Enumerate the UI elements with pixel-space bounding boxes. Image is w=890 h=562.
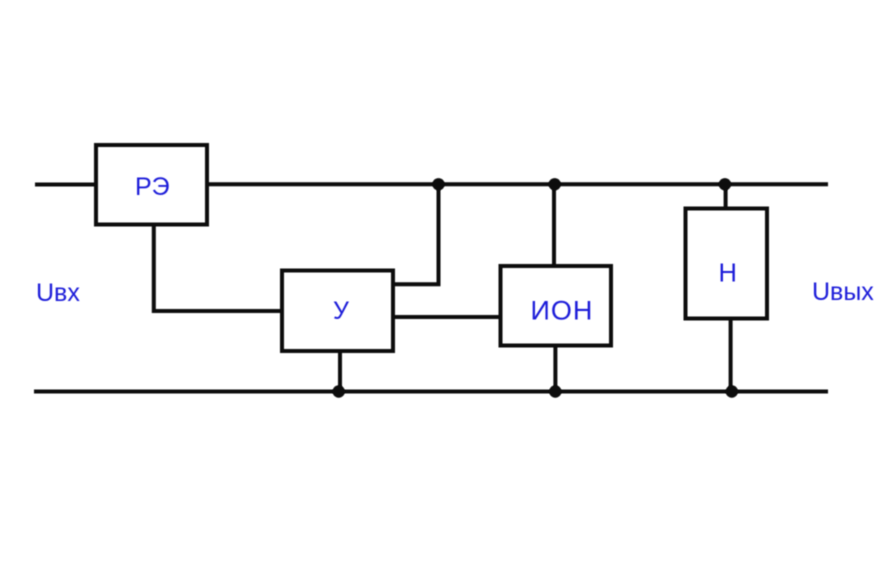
- svg-text:Uвх: Uвх: [36, 279, 80, 307]
- svg-text:У: У: [333, 297, 349, 325]
- ground junction dot at U: [333, 385, 345, 397]
- wire node B down to ION top: [552, 185, 556, 266]
- wire input (top-left to RE): [35, 183, 96, 187]
- svg-text:РЭ: РЭ: [135, 173, 170, 201]
- svg-text:ИОН: ИОН: [531, 296, 594, 326]
- block N (load): [686, 209, 768, 319]
- wire bottom rail: [34, 390, 828, 394]
- wire node C down to N top: [724, 185, 728, 209]
- wire node A down to U output: [394, 185, 439, 285]
- wire N bottom to ground rail: [729, 319, 733, 392]
- node A junction dot: [432, 178, 444, 190]
- svg-text:Uвых: Uвых: [812, 278, 874, 306]
- node B junction dot: [549, 178, 561, 190]
- block ION (voltage reference): [501, 266, 612, 346]
- wire top rail (RE output to right end): [207, 182, 828, 186]
- ground junction dot at N: [726, 385, 738, 397]
- wire RE bottom to U input: [154, 224, 281, 311]
- node C junction dot: [719, 178, 731, 190]
- wire U bottom to ground rail: [338, 351, 342, 392]
- ground junction dot at ION: [549, 385, 561, 397]
- block RE (regulating element): [96, 145, 207, 225]
- block U (amplifier): [282, 271, 393, 352]
- wire ION bottom to ground rail: [553, 346, 557, 392]
- wire U to ION: [394, 315, 500, 319]
- svg-text:Н: Н: [719, 260, 737, 288]
